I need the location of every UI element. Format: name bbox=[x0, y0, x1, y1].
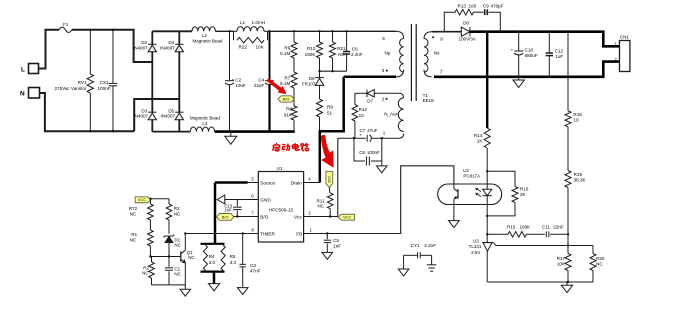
svg-text:D4: D4 bbox=[168, 40, 174, 45]
wire R14 to opto anode bbox=[486, 148, 488, 171]
svg-text:2K: 2K bbox=[520, 192, 527, 197]
connector CN1 bbox=[620, 41, 630, 72]
svg-text:TIMER: TIMER bbox=[260, 231, 275, 236]
wire L to fuse rail bbox=[39, 30, 60, 69]
svg-text:R7: R7 bbox=[284, 75, 290, 80]
diode D2 bbox=[151, 31, 153, 44]
svg-text:100: 100 bbox=[469, 4, 477, 9]
pin 4 Drain bbox=[304, 182, 320, 184]
svg-text:NC: NC bbox=[596, 262, 603, 267]
svg-text:100nF: 100nF bbox=[97, 86, 110, 91]
resistor R21 bbox=[332, 31, 334, 42]
svg-text:Magnetic Bead: Magnetic Bead bbox=[192, 39, 223, 44]
diode D3 bbox=[148, 111, 156, 113]
wire R1 bottom to base line bbox=[149, 246, 151, 257]
svg-text:22nF: 22nF bbox=[553, 225, 564, 230]
resistor R1 bbox=[148, 230, 154, 246]
svg-text:7: 7 bbox=[440, 70, 443, 75]
wire L2 to L1 node bbox=[215, 30, 233, 32]
svg-text:5.1M: 5.1M bbox=[280, 81, 290, 86]
capacitor C5 bbox=[326, 234, 328, 240]
svg-text:R3: R3 bbox=[174, 206, 180, 211]
wire fuse to bridge (L feed) bbox=[72, 30, 153, 62]
svg-text:B/O: B/O bbox=[327, 176, 332, 183]
resistor R9 bbox=[317, 99, 323, 117]
capacitor C11 bbox=[545, 231, 547, 237]
pin 6 GND bbox=[248, 199, 259, 201]
svg-text:+: + bbox=[511, 48, 514, 53]
wire opto collector FB loop bbox=[304, 166, 454, 234]
wire DC rail to transformer bbox=[268, 30, 397, 32]
svg-text:R4: R4 bbox=[209, 254, 215, 259]
svg-text:5.1M: 5.1M bbox=[280, 51, 290, 56]
svg-text:D7: D7 bbox=[367, 98, 373, 103]
opto phototransistor bbox=[453, 184, 455, 189]
svg-text:Source: Source bbox=[260, 180, 275, 185]
wire divider node to R17/R20 bbox=[568, 245, 593, 247]
wire primary pin3 entry bbox=[396, 70, 404, 77]
wire D5 anode to B- rail bbox=[178, 119, 180, 131]
wire D6-R9 bbox=[319, 85, 321, 99]
svg-text:CN1: CN1 bbox=[620, 35, 630, 40]
wire compensation line bbox=[487, 233, 508, 235]
transformer core bbox=[410, 24, 412, 101]
svg-text:L: L bbox=[21, 67, 25, 74]
svg-text:3: 3 bbox=[382, 68, 385, 73]
wire R6-R7 bbox=[293, 58, 295, 72]
wire aux vcc feed bbox=[337, 138, 339, 216]
net label B/O vertical bbox=[326, 171, 333, 187]
svg-text:+: + bbox=[359, 133, 362, 138]
wire N rail up to bridge bbox=[134, 99, 179, 131]
secondary snubber loop wire bbox=[444, 12, 455, 32]
svg-text:R13: R13 bbox=[458, 4, 467, 9]
diode D4 bbox=[178, 31, 180, 44]
svg-text:2.2nF: 2.2nF bbox=[424, 243, 436, 248]
svg-text:680uF: 680uF bbox=[525, 53, 538, 58]
svg-text:275Vac Varistor: 275Vac Varistor bbox=[54, 86, 86, 91]
wire pin3 rail thick bbox=[344, 76, 396, 79]
svg-text:IN4007: IN4007 bbox=[133, 46, 148, 51]
resistor R2 bbox=[151, 257, 153, 263]
svg-text:U1: U1 bbox=[277, 166, 283, 171]
wire output positive bus bbox=[469, 32, 619, 47]
svg-text:1nF: 1nF bbox=[224, 208, 232, 213]
svg-text:10: 10 bbox=[573, 118, 579, 123]
wire TIMER line bbox=[185, 233, 247, 235]
svg-text:10uF: 10uF bbox=[235, 83, 246, 88]
svg-text:1K: 1K bbox=[477, 139, 484, 144]
svg-text:Drain: Drain bbox=[291, 180, 303, 185]
svg-text:CX1: CX1 bbox=[100, 80, 109, 85]
wire C9 to bus bbox=[488, 12, 500, 32]
red arrow pointing at B/O net label bbox=[321, 135, 334, 168]
svg-text:IN4007: IN4007 bbox=[133, 114, 148, 119]
svg-text:Ns: Ns bbox=[434, 51, 440, 56]
inductor L2 magnetic bead bbox=[192, 27, 215, 32]
wire GND pin line with arrow bbox=[217, 195, 225, 204]
svg-text:NC: NC bbox=[318, 204, 325, 209]
wire Q1 emitter down bbox=[184, 263, 186, 285]
capacitor C4 bbox=[269, 31, 271, 80]
ground source sense bbox=[208, 284, 219, 291]
junction dots bbox=[89, 29, 91, 31]
svg-text:F1: F1 bbox=[63, 22, 69, 27]
svg-text:FR107: FR107 bbox=[302, 81, 316, 86]
svg-text:U3: U3 bbox=[473, 238, 479, 243]
svg-text:C2: C2 bbox=[235, 78, 241, 83]
svg-text:FB: FB bbox=[296, 231, 302, 236]
svg-text:L1: L1 bbox=[240, 20, 246, 25]
svg-text:R10: R10 bbox=[307, 46, 316, 51]
svg-text:N: N bbox=[20, 91, 25, 98]
wire R18-R19 bbox=[567, 127, 569, 171]
resistor R15 bbox=[508, 232, 527, 238]
ground CY1 left bbox=[403, 255, 405, 269]
svg-text:R5: R5 bbox=[230, 254, 236, 259]
zener D1 bbox=[164, 235, 175, 238]
svg-text:L3: L3 bbox=[202, 121, 208, 126]
svg-text:TL431: TL431 bbox=[469, 244, 482, 249]
resistor R7 bbox=[291, 72, 297, 88]
svg-text:+: + bbox=[232, 78, 235, 83]
op-amp U1 HFC500-15 controller bbox=[258, 172, 303, 243]
svg-text:9: 9 bbox=[440, 36, 443, 41]
resistor R13 bbox=[455, 9, 474, 15]
wire D1 to base line bbox=[168, 243, 170, 257]
wire N to bottom rail bbox=[40, 93, 135, 131]
opto LED bbox=[486, 171, 488, 189]
svg-text:R16: R16 bbox=[520, 186, 529, 191]
ground primary bulk bbox=[230, 132, 232, 137]
capacitor C7 bbox=[366, 135, 368, 142]
wire R72-R1 bbox=[149, 220, 151, 230]
svg-text:R21: R21 bbox=[337, 46, 346, 51]
svg-text:VCC: VCC bbox=[138, 197, 146, 202]
svg-text:10K: 10K bbox=[256, 45, 265, 50]
svg-text:2.5V: 2.5V bbox=[471, 250, 480, 255]
aux winding N_Aux bbox=[399, 93, 404, 98]
svg-text:38.3K: 38.3K bbox=[574, 178, 587, 183]
resistor R3 bbox=[168, 199, 170, 204]
inductor L3 magnetic bead bbox=[190, 127, 214, 132]
wire B- rail thick bbox=[215, 130, 295, 133]
svg-text:51: 51 bbox=[327, 111, 333, 116]
svg-text:3.3: 3.3 bbox=[230, 260, 237, 265]
svg-text:B/O: B/O bbox=[260, 214, 268, 219]
net label VCC left bbox=[135, 197, 151, 203]
svg-text:C10: C10 bbox=[525, 48, 534, 53]
wire clamp node bbox=[320, 70, 347, 72]
wire LED cathode to TL431 bbox=[486, 216, 488, 242]
svg-text:GND: GND bbox=[260, 197, 271, 202]
ground C5 bbox=[322, 252, 333, 259]
svg-text:NC: NC bbox=[188, 255, 195, 260]
ground output bbox=[518, 77, 520, 80]
wire primary pin5 entry bbox=[396, 31, 404, 38]
pin 8 TIMER bbox=[248, 233, 259, 235]
svg-text:B/O: B/O bbox=[222, 214, 229, 219]
svg-text:R8: R8 bbox=[286, 107, 292, 112]
svg-text:L2: L2 bbox=[202, 33, 208, 38]
diode D6 bbox=[319, 71, 321, 77]
svg-text:RV1: RV1 bbox=[78, 80, 87, 85]
svg-text:150K: 150K bbox=[305, 52, 317, 57]
pin 2 Vcc bbox=[304, 216, 338, 218]
ground opto emitter bbox=[449, 221, 460, 228]
svg-text:NC: NC bbox=[174, 212, 181, 217]
diode D5 bbox=[175, 111, 183, 113]
shunt regulator U3 TL431 bbox=[482, 242, 493, 244]
wire Vout sense drop (to R14) bbox=[486, 32, 488, 128]
wire base line bbox=[150, 256, 180, 258]
wire TL431 ref line bbox=[493, 242, 568, 245]
wire R3 to D1 bbox=[168, 220, 170, 234]
wire C11 to divider node bbox=[550, 233, 568, 235]
svg-text:C12: C12 bbox=[555, 49, 564, 54]
primary winding Np bbox=[400, 39, 404, 73]
wire R19 down to divider node bbox=[567, 188, 569, 246]
svg-text:5: 5 bbox=[382, 36, 385, 41]
wire drain path down bbox=[320, 77, 344, 183]
pin 7 B/O bbox=[248, 216, 259, 218]
svg-text:NC: NC bbox=[142, 271, 149, 276]
red arrow pointing at startup B/O tag bbox=[266, 78, 286, 94]
svg-text:1uF: 1uF bbox=[555, 54, 563, 59]
svg-text:1.0mH: 1.0mH bbox=[252, 20, 266, 25]
svg-text:100K: 100K bbox=[520, 225, 532, 230]
svg-text:EE19: EE19 bbox=[423, 98, 435, 103]
svg-text:C9: C9 bbox=[483, 4, 489, 9]
capacitor C1 bbox=[168, 257, 170, 267]
capacitor C12 bbox=[548, 32, 550, 53]
diode D7 bbox=[355, 92, 360, 94]
capacitor C8 branch bbox=[354, 138, 365, 161]
wire D3 anode to B- rail bbox=[151, 119, 153, 131]
svg-text:R6: R6 bbox=[284, 45, 290, 50]
svg-text:D8: D8 bbox=[463, 21, 469, 26]
svg-text:R18: R18 bbox=[573, 112, 582, 117]
wire source down to R4/R5 bbox=[214, 183, 217, 244]
svg-text:C6: C6 bbox=[352, 46, 358, 51]
wire R15-C11 bbox=[527, 233, 545, 235]
wire B+ rail bbox=[152, 30, 192, 32]
svg-text:470pF: 470pF bbox=[491, 4, 504, 9]
svg-text:47uF: 47uF bbox=[367, 128, 378, 133]
svg-text:N_Aux: N_Aux bbox=[384, 111, 398, 116]
wire output return bus bbox=[434, 62, 620, 77]
svg-text:Np: Np bbox=[385, 51, 391, 56]
secondary winding Ns bbox=[424, 32, 432, 39]
svg-text:22uF: 22uF bbox=[254, 83, 265, 88]
wire R8 to B- rail bbox=[293, 120, 295, 132]
svg-text:Vcc: Vcc bbox=[294, 214, 302, 219]
resistor R19 bbox=[565, 171, 571, 188]
resistor R12 bbox=[354, 93, 356, 104]
capacitor C10 bbox=[518, 32, 520, 51]
fuse F1 bbox=[59, 27, 72, 32]
wire pin1 node to ground bbox=[381, 138, 383, 166]
diode D8 bbox=[461, 27, 470, 36]
wire VCC rail bbox=[151, 198, 169, 200]
wire R4R5 to ground bbox=[213, 272, 216, 284]
svg-text:C7: C7 bbox=[360, 128, 366, 133]
wire Q1 collector to TIMER line bbox=[184, 234, 186, 251]
wire R9 to drain node bbox=[319, 117, 321, 131]
wire R13-C9 bbox=[474, 11, 484, 13]
svg-text:10K: 10K bbox=[557, 262, 566, 267]
svg-text:HFC500-15: HFC500-15 bbox=[269, 207, 294, 212]
svg-text:IN4007: IN4007 bbox=[160, 46, 175, 51]
wire secondary reference rail bbox=[487, 281, 593, 283]
svg-text:R9: R9 bbox=[327, 105, 333, 110]
net label B/O (startup divider) bbox=[278, 96, 294, 102]
svg-text:1nF: 1nF bbox=[333, 243, 341, 248]
wire B- rail left bbox=[152, 131, 190, 133]
wire opto emitter to ground bbox=[453, 205, 455, 221]
capacitor C3 bbox=[242, 234, 244, 264]
pin 5 Source bbox=[248, 182, 259, 184]
svg-text:R14: R14 bbox=[474, 133, 483, 138]
svg-text:2.2nF: 2.2nF bbox=[351, 52, 363, 57]
ground divider bbox=[566, 282, 568, 285]
svg-text:C8: C8 bbox=[359, 150, 365, 155]
wire R7-R8 bbox=[293, 88, 295, 106]
svg-text:C3: C3 bbox=[250, 263, 256, 268]
optocoupler U2 PC817A bbox=[438, 184, 502, 205]
ground aux bbox=[377, 166, 388, 173]
resistor R16 parallel LED bbox=[487, 171, 515, 186]
svg-text:R20: R20 bbox=[596, 256, 605, 261]
svg-text:VCC: VCC bbox=[343, 215, 351, 220]
ground C3 bbox=[237, 288, 248, 295]
svg-text:B/O: B/O bbox=[283, 96, 290, 101]
svg-text:47nF: 47nF bbox=[250, 269, 261, 274]
ground NC network bbox=[184, 285, 186, 289]
svg-text:R17: R17 bbox=[557, 256, 566, 261]
svg-text:NC: NC bbox=[174, 242, 181, 247]
red text qidong dianlu (startup circuit) bbox=[276, 142, 277, 144]
resistor R18 bbox=[565, 111, 571, 127]
svg-text:NC: NC bbox=[174, 271, 181, 276]
svg-text:10: 10 bbox=[359, 113, 365, 118]
wire D4 anode to N feed bbox=[178, 52, 180, 112]
svg-text:3.3: 3.3 bbox=[209, 260, 216, 265]
net label VCC at pin 2 bbox=[338, 214, 354, 220]
resistor R17 bbox=[567, 246, 569, 254]
capacitor C2 bbox=[229, 31, 231, 80]
svg-text:C11: C11 bbox=[542, 225, 551, 230]
svg-text:R12: R12 bbox=[359, 107, 368, 112]
resistor R6 bbox=[293, 31, 295, 42]
resistor R72 bbox=[149, 199, 151, 204]
svg-text:NC: NC bbox=[130, 238, 137, 243]
svg-text:NC: NC bbox=[130, 212, 137, 217]
svg-text:100V/3A: 100V/3A bbox=[459, 36, 476, 41]
wire NC bottom rail bbox=[152, 284, 186, 286]
svg-text:91K: 91K bbox=[284, 113, 293, 118]
wire pin9 to D8 bbox=[432, 31, 462, 33]
capacitor C13 bbox=[236, 200, 238, 207]
terminal N bbox=[29, 88, 40, 99]
resistor R4 / R5 parallel sense bbox=[201, 243, 225, 245]
svg-text:R19: R19 bbox=[574, 172, 583, 177]
earth ground CY1 right bbox=[431, 255, 433, 264]
resistor R8 bbox=[291, 106, 297, 120]
wire source thick bbox=[215, 181, 248, 184]
svg-text:Magnetic Bead: Magnetic Bead bbox=[190, 115, 221, 120]
opto LED emission arrows bbox=[476, 188, 481, 191]
wire D2 anode to L feed bbox=[151, 52, 153, 112]
capacitor CX1 bbox=[112, 30, 114, 84]
wire vcc node line bbox=[338, 137, 366, 139]
resistor R20 bbox=[592, 246, 594, 254]
resistor R11 bbox=[329, 188, 331, 193]
wire R18 column from bus bbox=[567, 32, 569, 111]
wire R11 to Vcc line bbox=[329, 209, 331, 217]
capacitor C6 bbox=[346, 31, 348, 51]
svg-text:R15: R15 bbox=[507, 225, 516, 230]
capacitor C9 bbox=[484, 9, 486, 15]
svg-text:C4: C4 bbox=[258, 78, 264, 83]
terminal L bbox=[29, 64, 39, 74]
varistor RV1 bbox=[89, 30, 91, 74]
svg-text:R1: R1 bbox=[131, 232, 137, 237]
wire C7 to pin1 bbox=[372, 137, 399, 139]
svg-text:R72: R72 bbox=[129, 206, 138, 211]
inductor L1 bbox=[234, 30, 238, 32]
svg-text:CY1: CY1 bbox=[411, 243, 420, 248]
svg-text:R22: R22 bbox=[239, 45, 248, 50]
transistor Q1 bbox=[180, 252, 182, 262]
svg-text:D2: D2 bbox=[141, 40, 147, 45]
resistor R22 bbox=[233, 31, 235, 40]
net label B/O at pin 7 bbox=[217, 214, 234, 221]
resistor R10 bbox=[319, 31, 321, 42]
svg-text:100nF: 100nF bbox=[367, 150, 380, 155]
svg-text:IN4007: IN4007 bbox=[160, 114, 175, 119]
resistor R14 bbox=[484, 128, 490, 148]
svg-text:PC817A: PC817A bbox=[463, 173, 480, 178]
